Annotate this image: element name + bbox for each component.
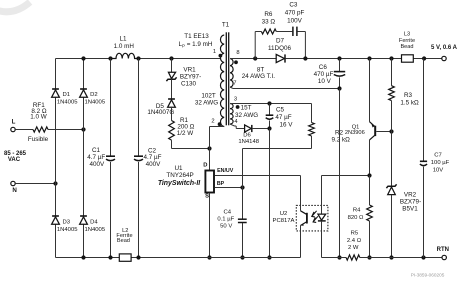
wire L input xyxy=(15,129,33,131)
svg-text:VR2: VR2 xyxy=(404,192,417,199)
svg-text:33 Ω: 33 Ω xyxy=(262,18,276,25)
transformer T1 core xyxy=(222,22,230,126)
svg-text:8: 8 xyxy=(236,50,239,56)
capacitor C5 xyxy=(266,104,294,129)
wire BP xyxy=(215,181,245,190)
node RTN terminal xyxy=(437,247,449,260)
wire R2 feed to BP xyxy=(243,149,312,219)
svg-text:C7: C7 xyxy=(434,152,442,158)
svg-text:D1: D1 xyxy=(63,92,71,98)
node pin 7 xyxy=(233,81,236,87)
transformer T1 primary winding 102T xyxy=(179,33,225,127)
wire left column D1/D3 xyxy=(55,59,57,258)
svg-text:EN/UV: EN/UV xyxy=(217,168,234,174)
wire pin4 jog xyxy=(230,124,245,128)
svg-text:1.0 W: 1.0 W xyxy=(30,114,47,121)
svg-text:32 AWG: 32 AWG xyxy=(235,112,258,119)
svg-text:5 V, 0.6 A: 5 V, 0.6 A xyxy=(431,45,458,51)
svg-text:L1: L1 xyxy=(119,36,127,43)
svg-text:1N4148: 1N4148 xyxy=(238,139,259,145)
svg-text:PI-3859-060205: PI-3859-060205 xyxy=(411,272,445,277)
svg-text:RTN: RTN xyxy=(437,247,449,253)
zener VR1 xyxy=(166,67,201,88)
resistor R4 xyxy=(348,176,373,260)
wire source to rail xyxy=(207,193,211,260)
wire base to VR2 xyxy=(391,132,393,187)
wire N input xyxy=(15,181,57,185)
node 5V output terminal xyxy=(431,45,458,61)
svg-text:1N4005: 1N4005 xyxy=(57,99,78,105)
svg-text:1/2 W: 1/2 W xyxy=(177,130,194,137)
op-amp U1 TinySwitch-II body xyxy=(158,162,214,199)
node PI drawing number xyxy=(411,272,445,277)
svg-text:400V: 400V xyxy=(146,161,162,168)
wire EN/UV xyxy=(215,168,301,205)
svg-text:102T: 102T xyxy=(201,93,216,100)
svg-text:PC817A: PC817A xyxy=(273,218,295,224)
wire RF1 to bridge xyxy=(48,127,86,131)
svg-text:15T: 15T xyxy=(241,104,252,111)
wire VR1 to D5 xyxy=(171,79,173,99)
svg-text:T1: T1 xyxy=(222,22,230,29)
svg-text:C6: C6 xyxy=(319,64,328,71)
svg-text:B5V1: B5V1 xyxy=(402,206,418,213)
svg-text:Bead: Bead xyxy=(400,44,413,50)
svg-text:D: D xyxy=(203,162,207,168)
resistor R5 xyxy=(346,231,362,260)
wire pin2 to drain xyxy=(210,127,225,171)
opto LED side xyxy=(318,176,326,258)
capacitor C1 xyxy=(87,59,115,258)
svg-text:32 AWG: 32 AWG xyxy=(195,100,218,107)
svg-text:0.1 µF: 0.1 µF xyxy=(217,217,234,223)
wire clamp column upper xyxy=(171,59,173,73)
wire pin3 line xyxy=(230,101,312,105)
svg-text:1N4005: 1N4005 xyxy=(57,227,78,233)
opto light arrows xyxy=(312,211,318,223)
svg-text:L3: L3 xyxy=(404,31,410,37)
wire rail to RTN xyxy=(360,255,442,259)
capacitor C2 xyxy=(134,59,162,258)
inductor L1 xyxy=(111,36,139,59)
node pin 3 xyxy=(234,97,240,109)
svg-text:R4: R4 xyxy=(353,208,361,214)
svg-text:100V: 100V xyxy=(287,17,303,24)
svg-text:TNY264P: TNY264P xyxy=(166,172,193,179)
svg-text:85 - 265: 85 - 265 xyxy=(4,151,27,157)
zener VR2 xyxy=(386,184,421,259)
svg-text:BP: BP xyxy=(217,181,225,187)
wire output rail xyxy=(285,56,441,60)
node pin 4 xyxy=(234,119,238,125)
capacitor C7 xyxy=(420,59,450,258)
svg-text:Ferrite: Ferrite xyxy=(399,38,415,44)
inductor L2 ferrite bead xyxy=(116,228,132,261)
capacitor C3 snubber xyxy=(276,1,305,58)
svg-text:7: 7 xyxy=(233,81,236,87)
svg-text:D7: D7 xyxy=(276,38,285,45)
svg-text:400V: 400V xyxy=(89,161,105,168)
svg-text:11DQ06: 11DQ06 xyxy=(268,45,291,52)
svg-text:U2: U2 xyxy=(280,211,288,217)
svg-text:1N4007G: 1N4007G xyxy=(147,109,174,116)
wire R1 to drain node xyxy=(172,140,212,150)
resistor RF1 xyxy=(28,102,49,143)
capacitor C4 xyxy=(217,210,246,230)
svg-text:N: N xyxy=(12,187,17,194)
svg-text:1: 1 xyxy=(213,49,216,55)
svg-text:D2: D2 xyxy=(90,92,98,98)
svg-text:C1: C1 xyxy=(92,147,101,154)
svg-text:2N3906: 2N3906 xyxy=(345,130,365,136)
node VAC label xyxy=(4,151,27,163)
svg-text:VAC: VAC xyxy=(8,157,21,163)
svg-text:D6: D6 xyxy=(243,133,251,139)
svg-text:C5: C5 xyxy=(276,107,285,114)
resistor R3 xyxy=(389,59,419,132)
inductor L3 ferrite bead xyxy=(399,31,415,62)
svg-text:Fusible: Fusible xyxy=(28,136,49,143)
wire bottom rail primary xyxy=(56,255,301,259)
decorative smudge (scan artifact, skip label semantics) xyxy=(0,2,30,12)
svg-text:10V: 10V xyxy=(433,168,444,174)
svg-text:TinySwitch-II: TinySwitch-II xyxy=(158,180,201,187)
svg-text:D4: D4 xyxy=(90,219,98,225)
svg-text:R6: R6 xyxy=(264,11,273,18)
svg-text:Bead: Bead xyxy=(117,238,130,244)
svg-text:50 V: 50 V xyxy=(220,223,232,229)
svg-text:1.5 kΩ: 1.5 kΩ xyxy=(400,100,419,107)
opto transistor side xyxy=(301,205,307,257)
diode D3 xyxy=(52,216,79,233)
svg-text:2: 2 xyxy=(211,119,214,125)
wire top rail left xyxy=(56,56,113,60)
wire pin8 to rail xyxy=(230,56,276,60)
svg-text:3: 3 xyxy=(234,97,237,103)
svg-text:47 µF: 47 µF xyxy=(275,114,291,121)
svg-text:U1: U1 xyxy=(174,165,183,172)
wire column D2/D4 xyxy=(83,59,85,258)
svg-text:C4: C4 xyxy=(224,210,232,216)
svg-text:470 pF: 470 pF xyxy=(285,9,305,16)
svg-text:100 µF: 100 µF xyxy=(431,160,450,166)
svg-text:T1 EE13: T1 EE13 xyxy=(184,33,209,40)
node L input terminal xyxy=(11,119,16,132)
svg-text:BZY97-: BZY97- xyxy=(180,74,201,81)
diode D4 xyxy=(80,216,106,233)
svg-text:S: S xyxy=(205,194,209,200)
diode D5 xyxy=(147,99,175,116)
wire C4 to rail xyxy=(240,223,244,260)
svg-text:BZX79-: BZX79- xyxy=(400,199,421,206)
svg-text:24 AWG T.I.: 24 AWG T.I. xyxy=(242,73,275,80)
wire top rail right xyxy=(136,56,221,60)
node N input terminal xyxy=(11,181,18,194)
svg-text:R3: R3 xyxy=(404,92,413,99)
svg-text:L: L xyxy=(12,119,16,126)
svg-text:1N4005: 1N4005 xyxy=(84,227,105,233)
svg-text:820 Ω: 820 Ω xyxy=(348,215,364,221)
wire LED node xyxy=(322,173,372,177)
svg-text:10 V: 10 V xyxy=(318,78,332,85)
transformer T1 secondary winding 8T xyxy=(230,59,275,88)
wire D5 to R1 xyxy=(171,107,173,121)
transformer T1 bias winding 15T xyxy=(230,104,258,125)
resistor R6 snubber xyxy=(255,11,276,59)
diode D1 xyxy=(52,89,79,105)
node pin 1 xyxy=(213,49,222,57)
svg-text:C130: C130 xyxy=(181,81,197,88)
wire pin7 return xyxy=(230,86,342,90)
node pin 2 xyxy=(211,119,221,127)
resistor R2 xyxy=(309,104,350,149)
node pin 8 xyxy=(234,50,240,64)
wire Q1 base xyxy=(376,129,393,133)
diode D6 xyxy=(238,125,259,145)
transistor Q1 xyxy=(345,59,375,176)
svg-text:1.0 mH: 1.0 mH xyxy=(114,43,135,50)
svg-text:1N4005: 1N4005 xyxy=(84,99,105,105)
svg-text:R5: R5 xyxy=(351,231,359,237)
wire bias column down xyxy=(267,129,271,260)
svg-text:9.2 kΩ: 9.2 kΩ xyxy=(332,136,351,143)
svg-text:2 W: 2 W xyxy=(348,245,359,251)
resistor R1 xyxy=(169,117,195,140)
svg-text:470 µF: 470 µF xyxy=(314,71,334,78)
diode D7 xyxy=(268,38,291,63)
svg-text:D3: D3 xyxy=(63,219,71,225)
svg-text:C3: C3 xyxy=(289,1,298,8)
wire bottom rail secondary xyxy=(322,257,347,259)
capacitor C6 xyxy=(314,59,346,89)
opto U2 dashed box xyxy=(273,205,328,231)
svg-text:16 V: 16 V xyxy=(280,121,294,128)
svg-text:VR1: VR1 xyxy=(183,67,196,74)
diode D2 xyxy=(80,89,106,105)
wire secondary return column xyxy=(337,89,341,260)
svg-text:2.4 Ω: 2.4 Ω xyxy=(347,238,362,244)
wire D6 to bias column xyxy=(252,126,272,130)
